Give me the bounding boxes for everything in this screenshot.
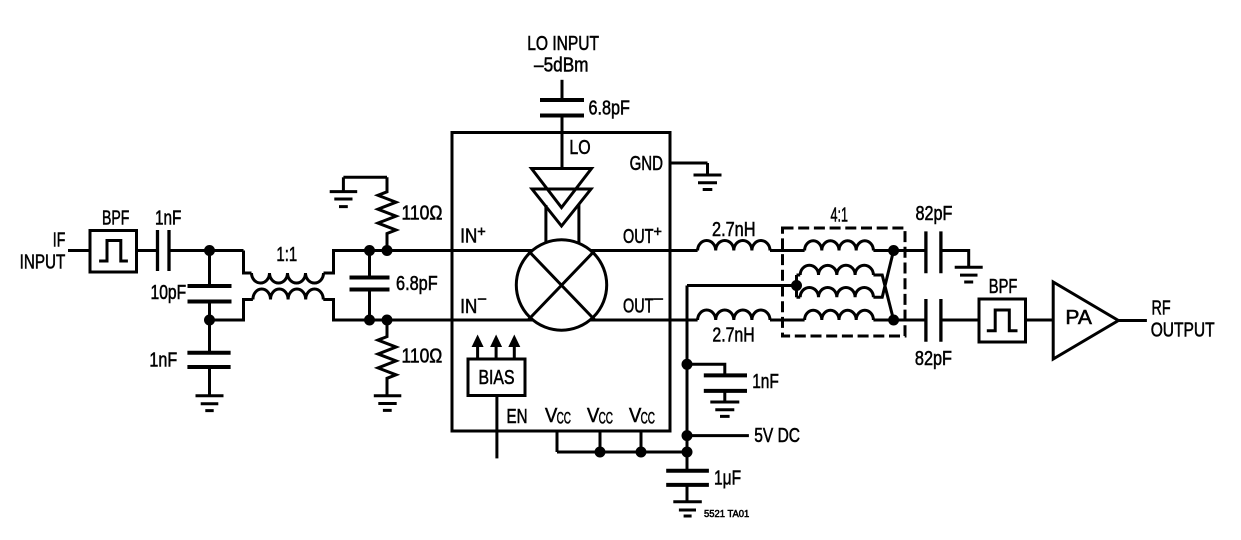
svg-text:CC: CC [599, 409, 613, 427]
svg-text:LO INPUT: LO INPUT [527, 33, 599, 55]
svg-text:1μF: 1μF [714, 468, 741, 490]
svg-text:CC: CC [641, 409, 655, 427]
svg-text:EN: EN [507, 406, 528, 428]
svg-text:+: + [477, 224, 486, 241]
svg-text:6.8pF: 6.8pF [589, 97, 630, 119]
svg-text:82pF: 82pF [916, 203, 953, 225]
svg-text:OUTPUT: OUTPUT [1151, 320, 1215, 342]
svg-text:BPF: BPF [102, 207, 129, 229]
svg-text:+: + [654, 224, 663, 241]
svg-text:LO: LO [569, 137, 590, 159]
svg-text:RF: RF [1152, 297, 1171, 319]
svg-text:82pF: 82pF [915, 348, 952, 370]
svg-text:OUT: OUT [623, 296, 654, 318]
svg-text:1nF: 1nF [149, 349, 177, 371]
svg-text:IN: IN [460, 226, 477, 248]
svg-text:1:1: 1:1 [276, 244, 297, 266]
svg-text:CC: CC [557, 409, 571, 427]
svg-text:110Ω: 110Ω [402, 203, 443, 225]
svg-text:–5dBm: –5dBm [534, 55, 589, 77]
svg-text:−: − [653, 291, 664, 308]
svg-text:10pF: 10pF [151, 282, 187, 304]
svg-text:1nF: 1nF [752, 371, 779, 393]
svg-text:2.7nH: 2.7nH [712, 219, 756, 241]
svg-text:PA: PA [1065, 307, 1092, 329]
svg-text:GND: GND [630, 153, 663, 175]
svg-text:OUT: OUT [623, 226, 654, 248]
svg-text:5V DC: 5V DC [754, 425, 800, 447]
svg-text:BPF: BPF [989, 276, 1018, 298]
svg-text:4:1: 4:1 [831, 205, 849, 227]
svg-text:2.7nH: 2.7nH [712, 324, 754, 346]
svg-text:6.8pF: 6.8pF [396, 273, 438, 295]
svg-text:IN: IN [460, 296, 477, 318]
svg-text:INPUT: INPUT [20, 252, 66, 274]
svg-text:BIAS: BIAS [479, 367, 515, 389]
svg-text:110Ω: 110Ω [402, 345, 443, 367]
svg-text:IF: IF [53, 230, 66, 252]
svg-text:−: − [477, 291, 487, 308]
svg-text:5521 TA01: 5521 TA01 [704, 509, 750, 520]
svg-text:1nF: 1nF [155, 207, 181, 229]
